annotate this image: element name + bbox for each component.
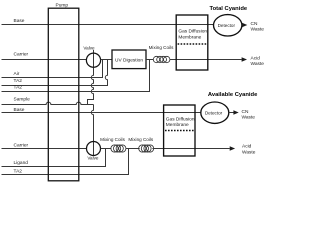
svg-text:Total Cyanide: Total Cyanide xyxy=(210,6,248,12)
svg-text:Mixing Coils: Mixing Coils xyxy=(149,45,174,50)
svg-text:TA2: TA2 xyxy=(14,78,23,84)
membrane dashed GD1 xyxy=(178,43,207,45)
svg-text:Valve: Valve xyxy=(87,156,99,161)
svg-text:Carrier: Carrier xyxy=(14,142,29,148)
wire coil2 to coil3 xyxy=(126,148,140,150)
wire carrier1 (Carrier line into valve V1) xyxy=(2,59,87,61)
svg-text:CN: CN xyxy=(242,109,249,115)
svg-text:Sample: Sample xyxy=(14,97,31,103)
wire coil3 out (mixing coil M3 through gas diffusion GD2 to acid waste arrow) xyxy=(152,148,229,150)
svg-text:Mixing Coils: Mixing Coils xyxy=(100,137,125,142)
svg-text:Base: Base xyxy=(14,107,25,113)
wire base1 (Base line to detector 1) xyxy=(2,24,214,26)
svg-text:TA2: TA2 xyxy=(14,168,23,174)
svg-text:Mixing Coils: Mixing Coils xyxy=(128,137,153,142)
svg-text:Base: Base xyxy=(14,18,25,24)
svg-text:Pump: Pump xyxy=(56,2,69,8)
wire valve2 out (valve V2 to mixing coil M2) xyxy=(101,148,112,150)
arrow acid waste 2 xyxy=(230,146,235,151)
wire carrier2 (Carrier line into valve V2) xyxy=(2,148,87,150)
svg-text:Waste: Waste xyxy=(242,115,256,121)
svg-text:Gas Diffusion: Gas Diffusion xyxy=(178,28,207,34)
gas diffusion membrane GD2 xyxy=(164,105,195,156)
detector D1 xyxy=(214,15,242,36)
wire coil1 out (mixing coil M1 to gas diffusion GD1 and acid waste arrow) xyxy=(170,59,242,61)
valve V2 xyxy=(87,142,101,156)
wire valve2 feed (sample down to valve V2, hop over base2) xyxy=(91,105,93,156)
svg-text:Gas Diffusion: Gas Diffusion xyxy=(166,117,195,123)
wire TA2 c (bottom TA2 line rising between coil sets) xyxy=(2,149,129,175)
wire air (Air line rising to merge after valve V1) xyxy=(2,60,103,78)
svg-text:Ligand: Ligand xyxy=(14,160,29,166)
svg-text:Carrier: Carrier xyxy=(14,52,29,58)
UV digestion reactor U1 xyxy=(112,50,146,69)
svg-text:Available Cyanide: Available Cyanide xyxy=(208,92,258,98)
detector D2 xyxy=(201,102,229,123)
mixing coil M3 xyxy=(139,145,154,152)
svg-text:Acid: Acid xyxy=(242,144,252,150)
svg-text:Acid: Acid xyxy=(251,55,261,61)
svg-text:UV Digestion: UV Digestion xyxy=(115,57,143,63)
svg-text:Waste: Waste xyxy=(251,61,265,67)
arrow acid waste 1 xyxy=(242,57,247,62)
wire TA2 b (second TA2 line rising before mixing coils M1) xyxy=(2,60,150,92)
svg-text:Membrane: Membrane xyxy=(178,34,201,40)
svg-text:Detector: Detector xyxy=(218,23,236,28)
valve V1 xyxy=(86,53,100,67)
membrane dashed GD2 xyxy=(165,130,194,132)
svg-text:Air: Air xyxy=(14,71,20,77)
svg-text:Membrane: Membrane xyxy=(166,122,189,128)
svg-text:CN: CN xyxy=(251,21,258,27)
svg-text:Detector: Detector xyxy=(205,110,223,115)
wire sample (Sample line, hops over pump edges, to valves) xyxy=(2,102,94,104)
wire base2 (Base line to detector 2) xyxy=(2,112,202,114)
arrow CN waste 2 xyxy=(229,112,234,114)
mixing coil M1 xyxy=(153,56,170,62)
wire uv out (UV digestion to mixing coil M1) xyxy=(146,59,153,61)
pump P1 xyxy=(48,8,79,181)
wire valve1 out (valve V1 to UV digestion) xyxy=(101,59,112,61)
wire ligand (Ligand line rising to merge after valve V2) xyxy=(2,149,106,167)
svg-text:TA2: TA2 xyxy=(14,84,23,90)
arrow CN waste 1 xyxy=(241,24,244,26)
wire valve1 stem (sample feed down from valve V1 with hops) xyxy=(88,50,94,105)
svg-text:Valve: Valve xyxy=(83,45,95,50)
gas diffusion membrane GD1 xyxy=(176,15,208,70)
svg-text:Waste: Waste xyxy=(242,149,256,155)
wire TA2 a (first TA2 line rising after valve V1, hop over Air) xyxy=(2,60,108,86)
mixing coil M2 xyxy=(111,145,126,152)
svg-text:Waste: Waste xyxy=(251,27,265,33)
